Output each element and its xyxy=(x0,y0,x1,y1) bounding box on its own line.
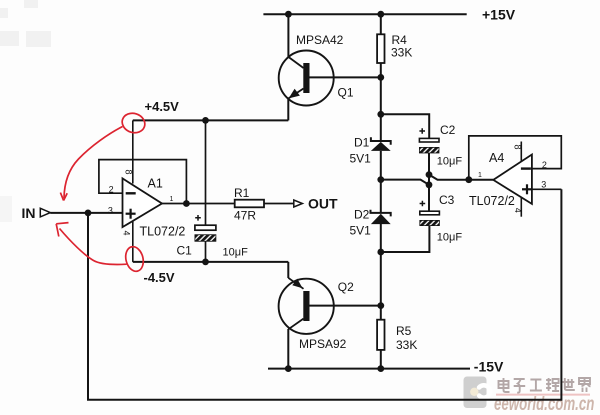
svg-text:10μF: 10μF xyxy=(223,247,249,259)
red annotation circle at +4.5V corner xyxy=(56,110,147,273)
wire -4.5V rail xyxy=(133,261,288,263)
node IN junction xyxy=(85,210,92,217)
wire branch D2 bottom to C3 bottom xyxy=(381,226,430,253)
svg-text:A1: A1 xyxy=(148,176,163,190)
junction R5 bottom at -15V rail xyxy=(377,365,384,372)
wire A4 feedback loop xyxy=(469,136,562,180)
svg-text:D1: D1 xyxy=(354,135,370,149)
wire A4 pin4 supply xyxy=(520,198,522,217)
wire branch to C2 top xyxy=(381,114,429,138)
zener diode D1 xyxy=(350,135,391,165)
wire A1 feedback loop xyxy=(99,160,186,204)
resistor R5 xyxy=(377,320,417,353)
svg-text:D2: D2 xyxy=(354,208,370,222)
svg-text:Q1: Q1 xyxy=(338,86,354,100)
wire D2 anode down xyxy=(380,224,382,306)
svg-text:47R: 47R xyxy=(234,208,256,222)
svg-text:10μF: 10μF xyxy=(437,155,463,167)
wire A1 pin4 supply xyxy=(132,222,134,262)
wire Q2 collector vertical xyxy=(287,329,289,369)
wire R5 bottom lead xyxy=(380,350,382,369)
junction Q1 collector at +15V rail xyxy=(285,11,292,18)
svg-text:OUT: OUT xyxy=(308,196,338,212)
svg-text:4: 4 xyxy=(122,231,132,236)
svg-text:33K: 33K xyxy=(391,46,412,60)
svg-text:IN: IN xyxy=(22,205,36,221)
svg-text:1: 1 xyxy=(478,172,482,179)
junction A4 feedback at output xyxy=(465,176,472,183)
junction A1 output / feedback xyxy=(183,200,190,207)
svg-text:3: 3 xyxy=(541,180,546,190)
svg-text:R5: R5 xyxy=(396,324,412,338)
svg-text:2: 2 xyxy=(542,160,547,170)
op-amp A4 xyxy=(469,145,547,213)
wire A4 pin8 supply xyxy=(520,142,522,163)
wire R4 top lead xyxy=(380,14,382,34)
svg-text:1: 1 xyxy=(170,196,174,203)
junction D2 anode / C3 branch xyxy=(377,249,384,256)
svg-text:4: 4 xyxy=(513,208,523,213)
svg-text:5V1: 5V1 xyxy=(350,223,372,237)
wire Q1 emitter vertical xyxy=(287,98,289,120)
junction C1 top at +4.5V xyxy=(202,117,209,124)
junction R4 top at +15V rail xyxy=(377,11,384,18)
svg-text:TL072/2: TL072/2 xyxy=(469,194,515,208)
svg-text:Q2: Q2 xyxy=(338,280,354,294)
wire R1 to OUT xyxy=(264,203,294,205)
watermark chinese text 电子工程世界 xyxy=(499,378,591,393)
svg-text:C3: C3 xyxy=(439,193,455,207)
svg-text:2: 2 xyxy=(109,184,114,194)
wire C2 bottom to C3 top vertical xyxy=(428,153,430,211)
wire node M to A4 output xyxy=(429,175,493,180)
wire Q1 collector vertical xyxy=(287,14,289,57)
svg-text:C1: C1 xyxy=(177,244,193,258)
svg-text:-4.5V: -4.5V xyxy=(144,270,175,285)
wire R5 top lead xyxy=(380,306,382,320)
wire IN to pin3 xyxy=(50,212,122,214)
junction C3 top at node M xyxy=(426,181,433,188)
wire Q2 base xyxy=(310,305,381,307)
red annotation arrow up-left to IN xyxy=(60,229,127,265)
wire -15V bottom rail xyxy=(268,368,470,370)
red annotation arrow down to IN xyxy=(64,127,123,199)
wire D1 anode to node M xyxy=(380,151,382,212)
junction C2 bottom at node M xyxy=(426,171,433,178)
wire A1 output to R1 xyxy=(162,203,235,205)
svg-text:3: 3 xyxy=(108,206,113,216)
wire C1 top lead from +4.5V xyxy=(205,120,207,225)
svg-text:8: 8 xyxy=(512,145,522,150)
wire C1 bottom lead xyxy=(205,241,207,262)
transistor Q1 MPSA42 xyxy=(279,33,354,106)
wire A1 pin8 supply xyxy=(132,120,134,183)
svg-text:MPSA42: MPSA42 xyxy=(296,33,344,47)
svg-text:MPSA92: MPSA92 xyxy=(299,337,347,351)
wire A4 pin3 xyxy=(532,188,562,190)
port IN xyxy=(22,205,51,221)
wire main column R4 to D1 xyxy=(380,77,382,140)
svg-text:5V1: 5V1 xyxy=(350,151,372,165)
capacitor C2 xyxy=(419,123,462,168)
watermark logo xyxy=(464,377,490,409)
op-amp A1 xyxy=(108,170,186,239)
wire +15V top rail xyxy=(263,13,466,15)
svg-text:A4: A4 xyxy=(489,151,504,165)
wire bootstrap loop left-bottom-right xyxy=(88,189,561,399)
zener diode D2 xyxy=(350,208,391,238)
wire node M to C3 column jog xyxy=(381,180,429,185)
wire Q1 base xyxy=(310,76,381,78)
wire +4.5V rail xyxy=(133,119,288,121)
junction node M at D1-D2 xyxy=(377,176,384,183)
port OUT xyxy=(294,196,338,212)
svg-text:TL072/2: TL072/2 xyxy=(140,224,186,238)
junction Q2 collector at -15V rail xyxy=(285,365,292,372)
junction Q1 base / R4 bottom xyxy=(377,74,384,81)
watermark pink underline xyxy=(496,394,590,396)
svg-text:+4.5V: +4.5V xyxy=(145,99,180,114)
svg-text:eeworld.com.cn: eeworld.com.cn xyxy=(494,394,594,415)
junction D1 cathode / C2 branch xyxy=(377,111,384,118)
wire R4 bottom lead xyxy=(380,63,382,77)
junction C1 bottom at -4.5V xyxy=(202,259,209,266)
wire Q2 emitter vertical xyxy=(287,262,289,278)
capacitor C1 xyxy=(177,215,249,259)
resistor R1 xyxy=(234,186,264,222)
svg-text:8: 8 xyxy=(124,170,134,175)
svg-text:-15V: -15V xyxy=(474,358,504,374)
junction Q2 base / R5 top xyxy=(377,302,384,309)
transistor Q2 MPSA92 xyxy=(279,278,355,351)
faint scan artifacts xyxy=(0,0,51,222)
svg-text:33K: 33K xyxy=(396,338,417,352)
svg-text:10μF: 10μF xyxy=(437,231,463,243)
capacitor C3 xyxy=(420,193,463,243)
svg-text:R1: R1 xyxy=(234,186,250,200)
resistor R4 xyxy=(377,33,412,63)
svg-text:C2: C2 xyxy=(440,123,456,137)
red annotation circle at -4.5V corner xyxy=(123,245,146,273)
svg-text:+15V: +15V xyxy=(482,7,516,23)
